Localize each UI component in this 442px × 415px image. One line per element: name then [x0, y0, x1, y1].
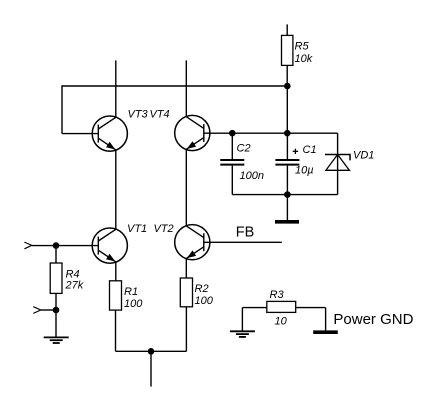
wire R3 right: [296, 307, 326, 309]
node junction bottom: [148, 348, 155, 355]
svg-text:R1: R1: [124, 286, 138, 298]
wire R3 left drop: [241, 308, 243, 332]
wire R4 top lead: [55, 246, 57, 263]
wire R4 bottom lead: [55, 293, 57, 310]
wire R5 bottom to rail: [286, 65, 288, 86]
wire R2 to bottom rail: [185, 307, 187, 352]
wire VT3 collector stub up: [115, 60, 117, 117]
ground earth left: [44, 337, 69, 343]
transistor VT1: [92, 228, 127, 263]
svg-text:10k: 10k: [295, 53, 313, 65]
wire top rail: [62, 85, 287, 87]
wire ground stub: [286, 195, 288, 221]
wire R5 top stub: [286, 24, 288, 35]
svg-text:FB: FB: [236, 225, 255, 241]
terminal input 1: [24, 242, 31, 249]
svg-text:10µ: 10µ: [295, 165, 314, 177]
wire C1 top lead: [286, 133, 288, 159]
svg-text:100: 100: [195, 295, 214, 307]
ground bar power: [313, 330, 338, 334]
svg-text:R5: R5: [295, 41, 310, 53]
wire VT4 base to VD1: [204, 132, 338, 134]
capacitor C1 polarity plus: [293, 149, 298, 154]
svg-text:10: 10: [275, 316, 288, 328]
wire VT3 emitter to VT1 collector: [115, 150, 117, 230]
svg-text:100: 100: [124, 298, 143, 310]
diode VD1 vertical lead: [337, 133, 339, 194]
svg-text:VT1: VT1: [127, 223, 147, 235]
wire bottom rail: [116, 350, 187, 352]
wire VT2 base FB: [204, 241, 282, 243]
resistor R1: [110, 281, 122, 310]
resistor R3: [267, 301, 296, 312]
wire R3 right drop: [325, 308, 327, 331]
wire bottom stub: [150, 351, 152, 386]
capacitor C2: [220, 160, 244, 165]
node junction R4 top: [53, 242, 60, 249]
svg-text:VT3: VT3: [128, 109, 149, 121]
svg-text:C2: C2: [237, 143, 251, 155]
wire C1 bottom lead: [286, 166, 288, 195]
resistor R4: [50, 263, 62, 293]
node junction C1 top: [284, 130, 291, 137]
resistor R2: [180, 278, 192, 307]
node junction rail R5: [284, 83, 291, 90]
diode VD1 cathode bar: [325, 155, 350, 161]
resistor R5: [282, 35, 293, 65]
wire caps bottom rail: [232, 194, 337, 196]
svg-text:VT2: VT2: [154, 223, 174, 235]
wire C2 bottom lead: [231, 166, 233, 195]
transistor VT2: [175, 225, 210, 260]
wire VT3 base: [62, 133, 99, 135]
wire left drop to VT3 base: [61, 85, 63, 133]
svg-text:Power GND: Power GND: [333, 311, 413, 328]
svg-text:R3: R3: [270, 289, 285, 301]
node junction C2 top: [229, 130, 236, 137]
wire terminal 2 to node: [41, 309, 56, 311]
svg-text:R2: R2: [195, 283, 209, 295]
svg-text:VD1: VD1: [353, 150, 374, 162]
wire down to ground: [55, 310, 57, 337]
transistor VT3: [92, 116, 127, 151]
transistor VT4: [175, 115, 210, 150]
ground bar signal: [275, 220, 299, 224]
wire C2 top lead: [231, 133, 233, 159]
terminal input 2: [33, 307, 41, 314]
node junction C1 bottom: [284, 191, 291, 198]
wire rail to cap node: [286, 86, 288, 133]
ground earth R3: [230, 331, 255, 337]
wire VT4 emitter to VT2 collector: [185, 149, 187, 226]
diode VD1 triangle: [326, 155, 350, 171]
svg-text:27k: 27k: [65, 280, 84, 292]
node junction R4 bottom: [53, 307, 60, 314]
svg-text:100n: 100n: [240, 170, 264, 182]
capacitor C1: [275, 160, 299, 165]
svg-text:VT4: VT4: [150, 109, 170, 121]
wire VT4 collector stub up: [185, 60, 187, 116]
wire R3 left: [242, 307, 266, 309]
svg-text:C1: C1: [303, 144, 317, 156]
wire VT2 emitter to R2: [185, 259, 187, 279]
wire input to VT1 base: [32, 245, 99, 247]
wire VT1 emitter to R1: [115, 262, 117, 281]
wire R1 to bottom rail: [115, 310, 117, 351]
